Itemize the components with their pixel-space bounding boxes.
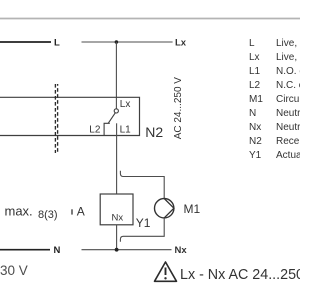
svg-text:L1: L1 [249,66,261,77]
svg-text:Circulation pump: Circulation pump [276,94,300,105]
svg-text:N.C. contact: N.C. contact [276,80,300,91]
svg-text:Live, actuator: Live, actuator [276,52,300,63]
svg-text:A: A [77,205,85,219]
svg-text:N2: N2 [145,124,163,140]
svg-text:M1: M1 [249,94,263,105]
svg-text:AC 24...250 V: AC 24...250 V [173,77,184,140]
svg-text:N: N [54,245,61,256]
svg-text:M1: M1 [184,202,201,216]
svg-text:30 V: 30 V [0,263,28,278]
svg-text:L2: L2 [249,80,261,91]
svg-text:L: L [249,38,255,49]
svg-text:Lx: Lx [120,99,131,110]
svg-text:Live, external: Live, external [276,38,300,49]
svg-text:N: N [249,108,256,119]
svg-text:L1: L1 [120,125,132,136]
svg-text:Neutral, actuator: Neutral, actuator [276,122,300,133]
svg-text:Y1: Y1 [136,216,151,230]
svg-text:Actuator: Actuator [276,150,300,161]
svg-text:Lx - Nx AC 24...250 V: Lx - Nx AC 24...250 V [180,267,300,283]
svg-text:Lx: Lx [249,52,260,63]
svg-text:Y1: Y1 [249,150,262,161]
svg-text:Nx: Nx [112,213,124,224]
svg-text:L: L [54,38,60,49]
svg-text:N2: N2 [249,136,262,147]
svg-text:Neutral: Neutral [276,108,300,119]
svg-text:max.: max. [5,204,33,219]
svg-text:Nx: Nx [249,122,261,133]
svg-text:L2: L2 [89,125,101,136]
svg-text:Lx: Lx [175,38,187,49]
svg-text:8(3): 8(3) [38,209,58,221]
svg-text:Receiver: Receiver [276,136,300,147]
svg-text:Nx: Nx [175,245,188,256]
svg-text:N.O. contact: N.O. contact [276,66,300,77]
